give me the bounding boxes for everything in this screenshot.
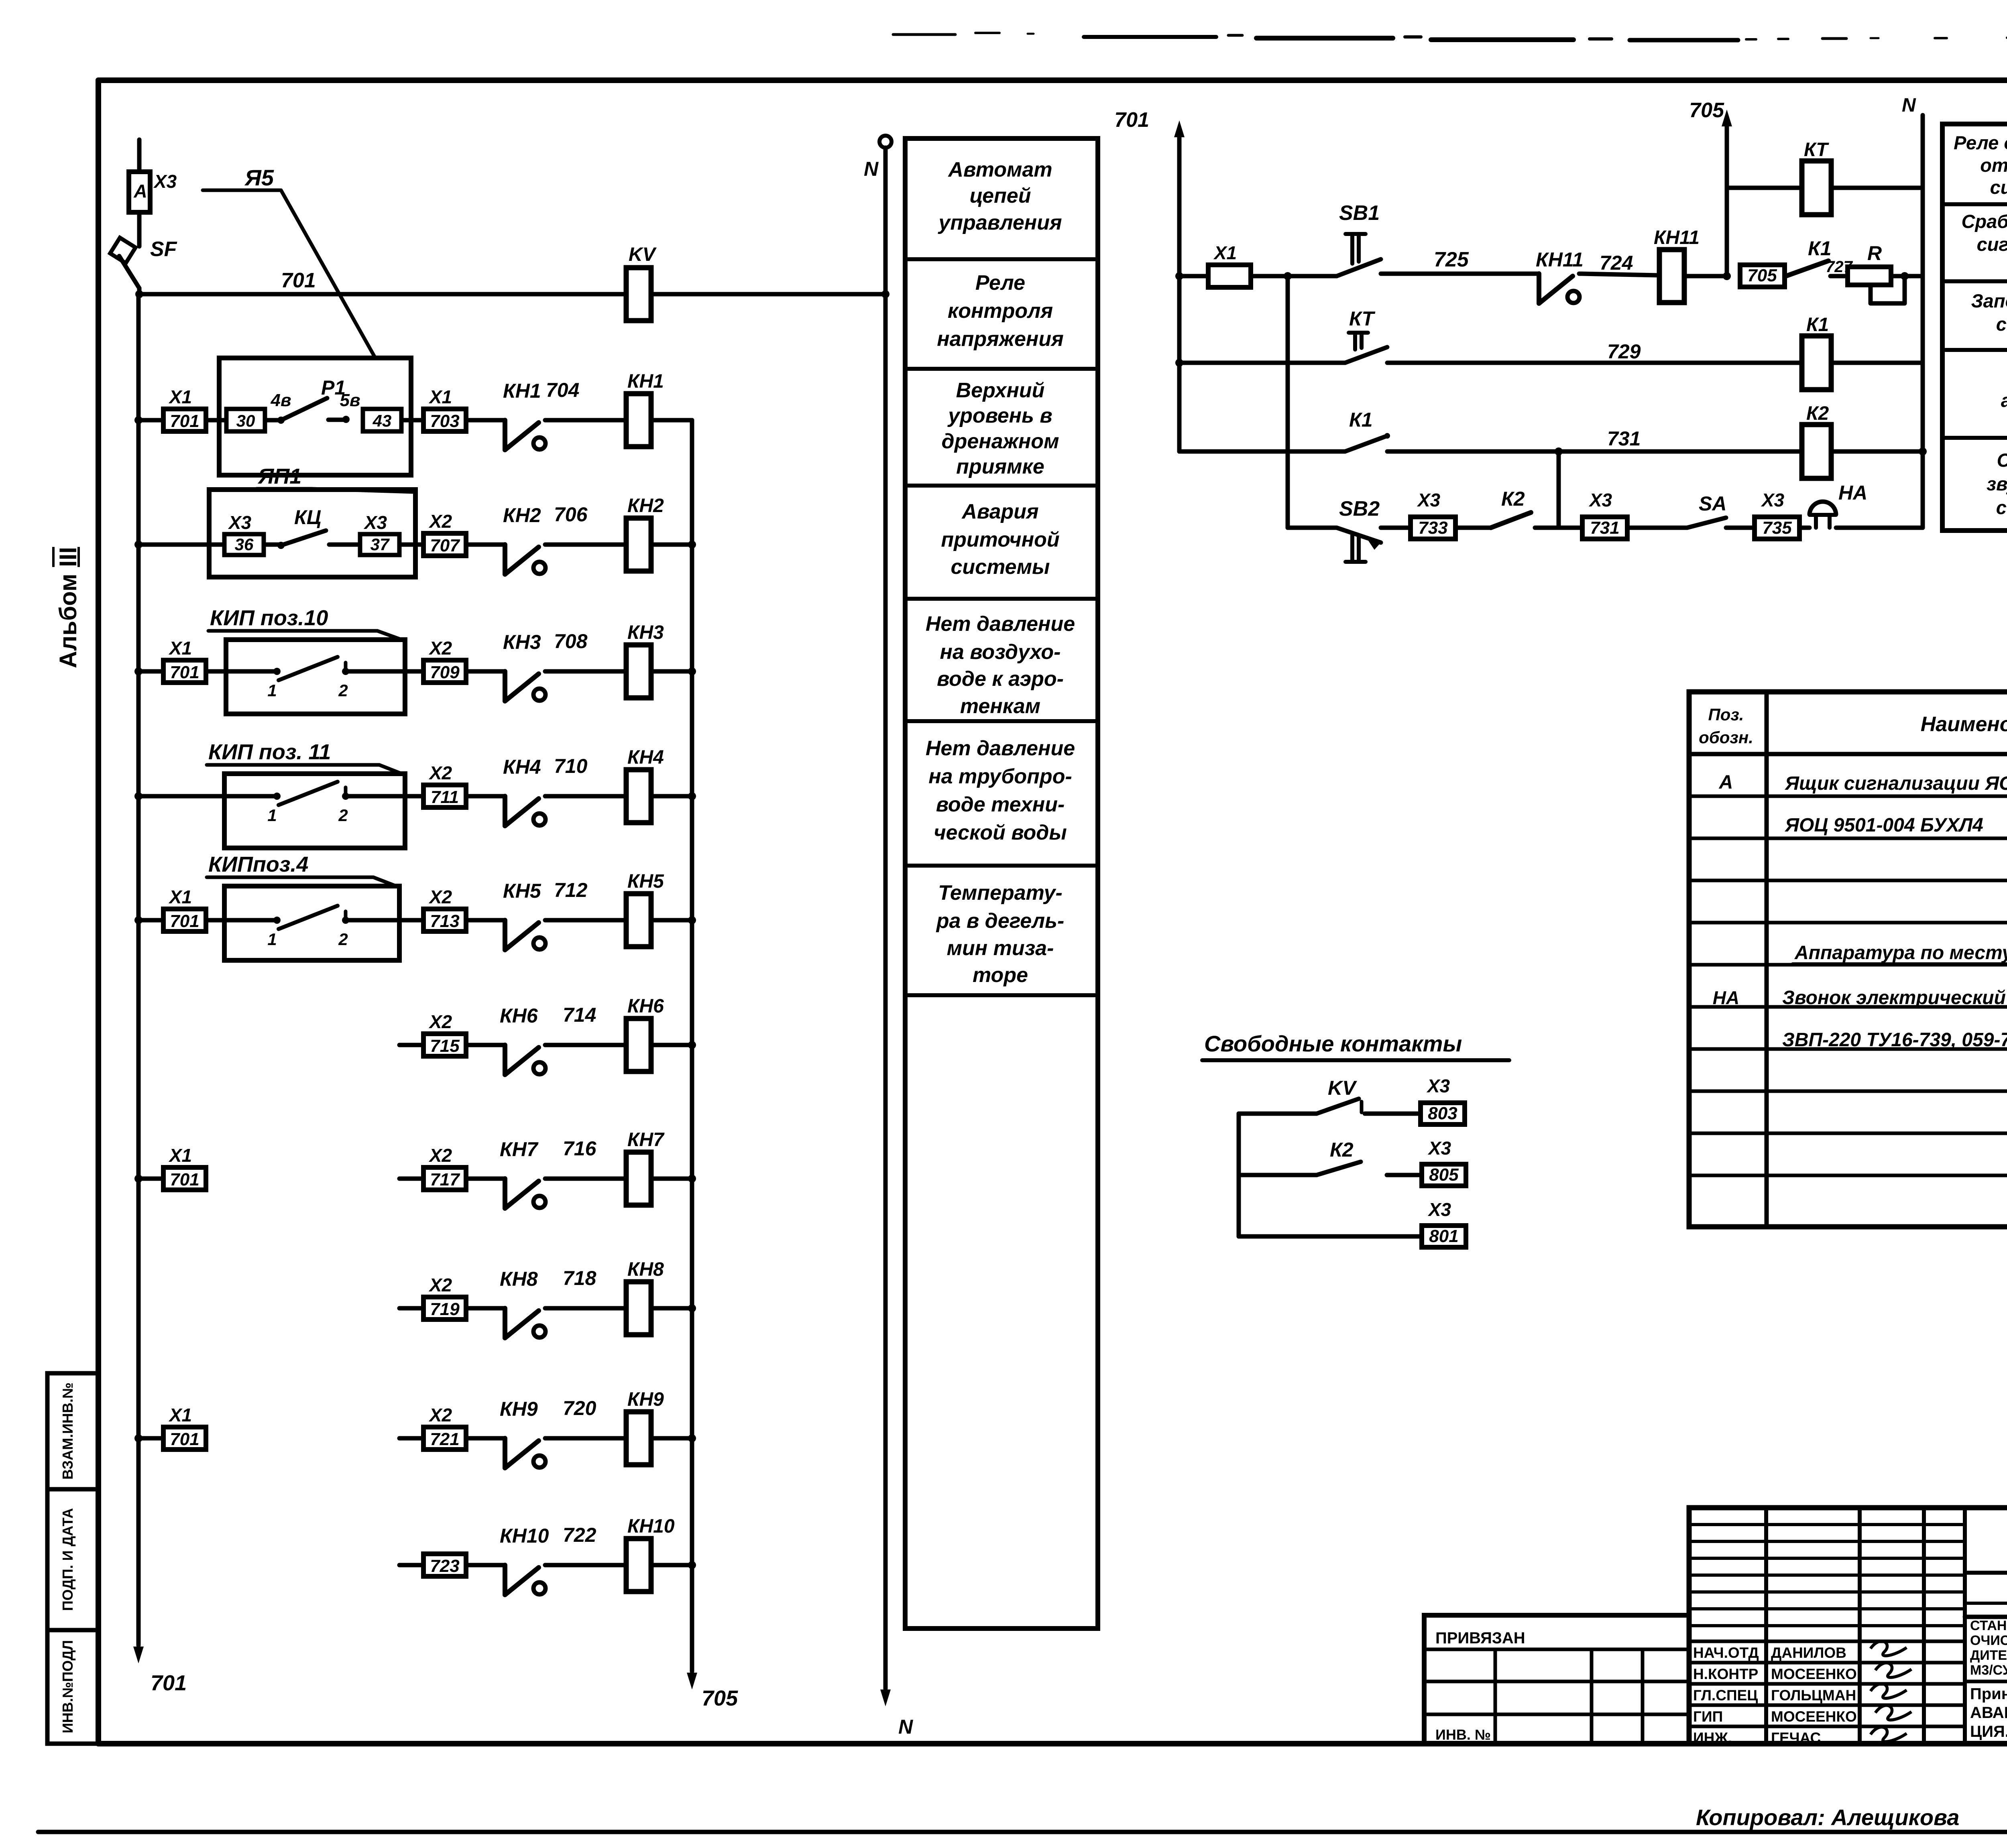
node: bus tap row KH2 [134, 541, 142, 549]
terminal X2 717 (row КН7) [399, 1177, 423, 1181]
terminal X1 (right circuit) [1208, 265, 1251, 287]
svg-text:сигналов: сигналов [1990, 177, 2007, 198]
svg-text:707: 707 [430, 536, 460, 555]
sensor contact 1-2 (КИП поз.11) [224, 794, 277, 799]
wire K1 coil to N bus [1831, 361, 1923, 365]
svg-text:Нет давление: Нет давление [926, 612, 1075, 636]
wire X2-707 to contact KH2 [466, 543, 505, 547]
svg-text:Наименование: Наименование [1921, 713, 2007, 736]
svg-text:сигнала: сигнала [1996, 497, 2007, 518]
node: bus tap row KH3 [134, 667, 142, 675]
node: tap line D [1555, 447, 1563, 455]
svg-text:KV: KV [629, 244, 657, 265]
svg-text:X1: X1 [168, 386, 192, 407]
terminal X1 701 (row KH5) [163, 909, 206, 931]
wire КИП4 to X2-713 [399, 918, 423, 923]
svg-text:718: 718 [563, 1267, 596, 1289]
svg-text:ПРИВЯЗАН: ПРИВЯЗАН [1435, 1629, 1525, 1647]
wire HA to N bus [1836, 526, 1923, 530]
svg-text:КН10: КН10 [500, 1525, 549, 1547]
svg-text:Поз.: Поз. [1708, 705, 1744, 724]
svg-text:30: 30 [236, 411, 255, 430]
stub terminal X1 701 on bus (row KH9) [134, 1434, 142, 1442]
wire 722 [545, 1563, 626, 1567]
svg-text:710: 710 [554, 755, 588, 777]
svg-text:721: 721 [430, 1429, 459, 1449]
svg-text:Аппаратура по месту: Аппаратура по месту [1794, 942, 2007, 964]
svg-text:ДАНИЛОВ: ДАНИЛОВ [1771, 1645, 1846, 1661]
contact K1 (seal-in) [1786, 261, 1828, 276]
svg-text:X1: X1 [168, 638, 192, 659]
svg-text:торе: торе [973, 964, 1028, 987]
wire to N bus (SB1 row) [1905, 274, 1923, 279]
svg-text:НА: НА [1838, 482, 1867, 504]
svg-text:X2: X2 [428, 1405, 452, 1425]
svg-text:К2: К2 [1806, 403, 1829, 424]
contact КН6 [503, 1045, 507, 1075]
svg-text:КН3: КН3 [503, 631, 541, 653]
svg-text:704: 704 [546, 379, 579, 401]
terminal X2 713 [423, 909, 466, 931]
wire to X3-731 [1535, 526, 1582, 530]
svg-text:КН7: КН7 [500, 1138, 539, 1161]
svg-text:Х3: Х3 [228, 512, 252, 533]
node: bus junction at SF [135, 290, 143, 298]
terminal X2 719 (row КН8) [399, 1306, 423, 1311]
box КИП поз.11 with callout [224, 774, 405, 848]
svg-text:X1: X1 [168, 1405, 192, 1425]
svg-text:SB2: SB2 [1339, 497, 1380, 520]
wire 729 [1387, 361, 1801, 365]
svg-text:2: 2 [338, 930, 348, 949]
svg-text:ИНВ. №: ИНВ. № [1435, 1726, 1491, 1743]
wire KV to N line [651, 292, 885, 297]
svg-text:X2: X2 [428, 886, 452, 907]
relay coil KV [626, 268, 651, 321]
svg-text:К2: К2 [1330, 1138, 1354, 1161]
svg-text:Х3: Х3 [363, 512, 387, 533]
contact KH11 (NC) [1537, 274, 1541, 303]
wire coil КН10 to bus 705 [651, 1563, 692, 1567]
relay coil K1 [1802, 336, 1831, 390]
wire KH11 coil to node C [1684, 274, 1727, 279]
relay coil KH3 [626, 645, 651, 698]
svg-text:SB1: SB1 [1339, 201, 1380, 225]
svg-text:Х3: Х3 [1427, 1138, 1451, 1159]
svg-text:701: 701 [1114, 108, 1149, 132]
wire coil KH4 to bus 705 [651, 794, 692, 799]
title block [1689, 1508, 2007, 1744]
svg-text:СТАНЦИЯ БИОЛОГИЧЕСКОЙ: СТАНЦИЯ БИОЛОГИЧЕСКОЙ [1970, 1618, 2007, 1633]
wire X2-723 to contact КН10 [466, 1563, 505, 1567]
node: bus tap row KH1 [134, 416, 142, 424]
svg-text:КН11: КН11 [1536, 248, 1584, 271]
contact P1 (in Я5) [265, 418, 281, 423]
svg-text:725: 725 [1434, 248, 1469, 271]
svg-text:X2: X2 [428, 1011, 452, 1032]
svg-text:705: 705 [1747, 266, 1777, 285]
node: line C junction [1723, 272, 1731, 280]
svg-text:701: 701 [170, 1170, 199, 1189]
component list table [1689, 692, 2007, 1227]
svg-text:1: 1 [267, 681, 277, 700]
svg-text:К1: К1 [1806, 314, 1829, 335]
svg-text:ГЕЧАС: ГЕЧАС [1771, 1730, 1821, 1746]
box КИПпоз.4 with callout [206, 918, 224, 923]
relay coil KT [1802, 161, 1831, 215]
wire coil КН9 to bus 705 [651, 1436, 692, 1441]
wire X1 to bus B [1251, 274, 1288, 279]
feed arrow 705 (line C) [1725, 126, 1729, 276]
bus 701 (left vertical) [136, 294, 141, 1645]
contact KV (free) [1239, 1112, 1317, 1116]
svg-text:701: 701 [170, 411, 199, 431]
svg-text:5в: 5в [340, 390, 360, 410]
svg-text:37: 37 [370, 535, 390, 554]
svg-text:731: 731 [1607, 427, 1641, 450]
wire coil КН6 to bus 705 [651, 1043, 692, 1047]
wire 712 [545, 918, 626, 923]
svg-text:КН5: КН5 [503, 880, 541, 902]
svg-text:803: 803 [1428, 1104, 1457, 1123]
parallel loop under R [1891, 274, 1905, 279]
terminal X2 723 (row КН10) [399, 1563, 423, 1567]
contact KH2 [503, 545, 507, 574]
svg-text:цепей: цепей [970, 184, 1031, 207]
svg-text:701: 701 [151, 1671, 187, 1695]
svg-text:735: 735 [1762, 518, 1792, 538]
function box (right) [1942, 124, 2007, 531]
terminal X3 805 [1422, 1164, 1466, 1186]
wire 727 [1830, 274, 1848, 279]
wire 716 [545, 1177, 626, 1181]
stub terminal X1 701 on bus (row KH7) [134, 1175, 142, 1183]
svg-text:706: 706 [554, 503, 588, 526]
svg-text:К2: К2 [1501, 488, 1525, 510]
svg-text:X2: X2 [428, 1145, 452, 1166]
sensor contact 1-2 (КИПпоз.4) [224, 918, 277, 923]
svg-text:Принципиальная схема: Принципиальная схема [1970, 1685, 2007, 1703]
left margin box ВЗАМ.ИНВ.№ [47, 1373, 98, 1489]
svg-text:КН3: КН3 [627, 622, 664, 643]
contact КЦ (in ЯП1) [264, 543, 281, 547]
svg-text:КН6: КН6 [627, 996, 664, 1017]
relay coil КН8 [626, 1282, 651, 1335]
wire coil КН8 to bus 705 [651, 1306, 692, 1311]
wire ЯП1 to X2-707 [399, 543, 423, 547]
svg-text:приточной: приточной [941, 528, 1059, 551]
svg-text:X1: X1 [168, 886, 192, 907]
wire coil KH3 to bus 705 [651, 669, 692, 674]
wire KT coil to N bus [1831, 186, 1923, 190]
svg-text:701: 701 [170, 1429, 199, 1449]
svg-text:КИПпоз.4: КИПпоз.4 [208, 852, 308, 876]
wire bus to X1-701 (row KH5) [138, 918, 163, 923]
contact KH3 [503, 671, 507, 701]
terminal X3 803 [1421, 1103, 1465, 1124]
svg-text:715: 715 [430, 1036, 460, 1056]
wire 708 [545, 669, 626, 674]
wire X1-703 to contact KH1 [466, 418, 505, 423]
svg-text:КН7: КН7 [627, 1129, 665, 1151]
svg-text:Ящик сигнализации ЯС: Ящик сигнализации ЯС [1784, 773, 2007, 794]
wire coil KH2 to bus 705 [651, 543, 692, 547]
contact K2 (SB2 row) [1455, 526, 1491, 530]
wire KT row tap [1727, 186, 1801, 190]
svg-text:аварии: аварии [2001, 390, 2007, 411]
svg-text:КН1: КН1 [503, 380, 541, 402]
svg-text:701: 701 [281, 269, 316, 292]
svg-text:уровень в: уровень в [947, 404, 1052, 427]
node: N bus at K2 row [1919, 447, 1927, 455]
svg-text:КН10: КН10 [627, 1516, 675, 1537]
svg-text:Реле отстройки: Реле отстройки [1954, 132, 2007, 153]
svg-text:тенкам: тенкам [960, 695, 1040, 718]
wire 706 [545, 543, 626, 547]
svg-text:Х3: Х3 [1588, 490, 1612, 510]
svg-text:Свободные контакты: Свободные контакты [1204, 1031, 1462, 1056]
svg-text:R: R [1867, 242, 1882, 264]
svg-text:2: 2 [338, 681, 348, 700]
svg-text:М3/СУТ.: М3/СУТ. [1970, 1663, 2007, 1678]
contact K2 (free) [1239, 1173, 1317, 1177]
svg-text:X2: X2 [428, 638, 452, 659]
svg-text:Н.КОНТР: Н.КОНТР [1693, 1666, 1758, 1682]
feed arrow 701 (right circuit) [1177, 137, 1182, 451]
svg-text:36: 36 [235, 535, 254, 554]
svg-text:Х3: Х3 [1761, 490, 1785, 510]
wire 710 [545, 794, 626, 799]
svg-text:ВЗАМ.ИНВ.№: ВЗАМ.ИНВ.№ [59, 1382, 76, 1480]
wire X2-721 to contact КН9 [466, 1436, 505, 1441]
wire КИП10 to X2-709 [405, 669, 423, 674]
svg-text:719: 719 [430, 1299, 460, 1319]
svg-text:ЗВП-220 ТУ16-739, 059-76: ЗВП-220 ТУ16-739, 059-76 [1782, 1029, 2007, 1051]
terminal X2 709 [423, 660, 466, 683]
svg-text:X2: X2 [428, 762, 452, 783]
svg-text:Звонок электрический: Звонок электрический [1782, 987, 2006, 1008]
svg-text:X2: X2 [428, 1275, 452, 1295]
svg-text:КН9: КН9 [627, 1389, 664, 1410]
bus (free contacts) [1237, 1114, 1241, 1236]
svg-text:ГИП: ГИП [1693, 1708, 1723, 1725]
terminal box 705 [1740, 265, 1785, 287]
svg-text:НАЧ.ОТД: НАЧ.ОТД [1693, 1645, 1759, 1661]
svg-text:дренажном: дренажном [941, 430, 1059, 453]
svg-text:Температу-: Температу- [938, 881, 1063, 905]
svg-text:Авария: Авария [961, 500, 1038, 523]
wire X2-717 to contact КН7 [466, 1177, 505, 1181]
wire 731 [1387, 449, 1801, 454]
svg-text:КН4: КН4 [503, 756, 541, 778]
svg-text:Автомат: Автомат [947, 158, 1052, 181]
svg-text:воде к аэро-: воде к аэро- [937, 667, 1064, 691]
svg-text:Верхний: Верхний [956, 379, 1045, 402]
wire to X3 801 [1239, 1234, 1422, 1239]
wire X2-711 to contact KH4 [466, 794, 505, 799]
svg-text:НА: НА [1713, 987, 1739, 1008]
sensor contact 1-2 (КИП поз.10) [226, 669, 277, 674]
svg-text:722: 722 [563, 1524, 596, 1546]
wire bus to box ЯП1 [138, 543, 224, 547]
wire bus to X1-701 (row KH3) [138, 669, 163, 674]
svg-text:711: 711 [431, 787, 459, 807]
svg-text:звукового: звукового [1987, 473, 2007, 494]
svg-text:Реле: Реле [975, 271, 1025, 295]
terminal X3 731 [1582, 517, 1627, 539]
svg-text:805: 805 [1429, 1165, 1459, 1185]
terminal X3 37 (in ЯП1) [329, 543, 360, 547]
svg-text:724: 724 [1600, 252, 1633, 274]
svg-text:4в: 4в [270, 390, 291, 410]
svg-text:717: 717 [430, 1170, 460, 1189]
svg-text:708: 708 [554, 630, 588, 653]
svg-text:ИНВ.№ПОДЛ: ИНВ.№ПОДЛ [59, 1640, 76, 1733]
terminal X3 801 [1422, 1226, 1466, 1247]
box Я5 with callout [219, 358, 411, 475]
svg-text:2: 2 [338, 806, 348, 825]
contact КН7 [503, 1179, 507, 1208]
contact КН9 [503, 1438, 507, 1468]
svg-text:713: 713 [430, 911, 459, 931]
svg-text:сигнальных: сигнальных [1977, 234, 2007, 255]
binding block ПРИВЯЗАН [1424, 1615, 1689, 1744]
svg-text:729: 729 [1607, 340, 1641, 363]
svg-text:712: 712 [554, 879, 588, 901]
svg-text:МОСЕЕНКО: МОСЕЕНКО [1771, 1666, 1857, 1682]
wire coil КН7 to bus 705 [651, 1177, 692, 1181]
neutral line N (left) [879, 136, 892, 148]
svg-text:Х3: Х3 [1427, 1199, 1451, 1220]
fuse A (X3) [137, 140, 142, 172]
svg-text:X1: X1 [428, 386, 452, 407]
wire bus to X1-701 (row KH1) [138, 418, 163, 423]
relay coil KH5 [626, 894, 651, 947]
contact KH4 [503, 796, 507, 826]
resistor R [1848, 267, 1891, 285]
svg-text:X1: X1 [1213, 242, 1237, 263]
svg-text:КН8: КН8 [627, 1259, 664, 1280]
svg-text:КН2: КН2 [503, 504, 541, 527]
svg-text:управления: управления [937, 211, 1062, 234]
terminal X1 703 [423, 409, 466, 431]
contact KH1 [503, 420, 507, 450]
wire 714 [545, 1043, 626, 1047]
node: bus tap row KH4 [134, 792, 142, 800]
svg-text:МОСЕЕНКО: МОСЕЕНКО [1771, 1708, 1857, 1725]
svg-text:ЦИЯ.: ЦИЯ. [1970, 1723, 2007, 1740]
svg-text:ра в дегель-: ра в дегель- [936, 909, 1065, 933]
relay coil KH4 [626, 770, 651, 823]
terminal X2 715 (row КН6) [399, 1043, 423, 1047]
svg-text:АВАРИЙНОЙ СИГНАЛИЗА-: АВАРИЙНОЙ СИГНАЛИЗА- [1970, 1703, 2007, 1722]
svg-text:А: А [133, 181, 147, 201]
svg-text:N: N [1902, 95, 1916, 116]
bus 705 (coil return, vertical) [690, 420, 694, 1671]
wire feed to X1 [1179, 274, 1208, 279]
contact КН8 [503, 1308, 507, 1338]
svg-text:43: 43 [372, 411, 392, 430]
svg-text:701: 701 [170, 663, 199, 682]
svg-text:733: 733 [1418, 518, 1447, 538]
terminal X1 701 (row KH3) [163, 660, 206, 683]
svg-text:Альбом III: Альбом III [55, 547, 81, 668]
node: feed at SB1 row [1175, 272, 1183, 280]
svg-text:обозн.: обозн. [1699, 728, 1753, 747]
wire X1-701 to box Я5 [206, 418, 226, 423]
function table (middle) [905, 138, 1098, 1628]
terminal X3 36 (in ЯП1) [224, 534, 264, 555]
svg-text:КН2: КН2 [627, 495, 664, 516]
svg-text:ЯОЦ 9501-004 БУХЛ4: ЯОЦ 9501-004 БУХЛ4 [1784, 815, 1983, 836]
svg-text:731: 731 [1590, 518, 1619, 538]
svg-text:КН6: КН6 [500, 1004, 538, 1027]
terminal X2 707 [423, 533, 466, 556]
terminal X2 721 (row КН9) [399, 1436, 423, 1441]
svg-text:напряжения: напряжения [937, 327, 1063, 351]
svg-text:ГЛ.СПЕЦ: ГЛ.СПЕЦ [1693, 1687, 1758, 1704]
svg-text:КН8: КН8 [500, 1268, 538, 1290]
node: bus tap row KH5 [134, 916, 142, 924]
svg-text:системы: системы [951, 555, 1050, 579]
svg-text:на воздухо-: на воздухо- [940, 640, 1061, 664]
bus B (right circuit vertical) [1286, 276, 1290, 528]
svg-text:705: 705 [1689, 99, 1724, 122]
switch SA [1627, 526, 1687, 530]
svg-text:705: 705 [702, 1686, 738, 1710]
svg-text:X1: X1 [168, 1145, 192, 1166]
switch SF [137, 212, 142, 246]
svg-text:ИНЖ.: ИНЖ. [1693, 1730, 1732, 1746]
svg-text:К1: К1 [1349, 409, 1373, 431]
svg-text:К1: К1 [1808, 237, 1832, 260]
svg-text:КИП поз. 11: КИП поз. 11 [208, 740, 331, 764]
relay coil KH1 [626, 394, 651, 447]
svg-text:приямке: приямке [956, 455, 1044, 478]
wire bus to box КИП поз.11 [138, 794, 224, 799]
svg-text:1: 1 [267, 806, 277, 825]
svg-text:Срабатывание: Срабатывание [1961, 211, 2007, 232]
svg-text:720: 720 [563, 1397, 596, 1419]
relay coil КН9 [626, 1412, 651, 1465]
terminal X3 733 [1381, 526, 1411, 530]
contact КН10 [503, 1565, 507, 1595]
svg-text:КН11: КН11 [1654, 227, 1700, 248]
svg-text:716: 716 [563, 1137, 597, 1160]
wire coil KH1 to bus 705 [651, 418, 692, 423]
svg-text:сигнала: сигнала [1996, 313, 2007, 335]
wire 725 [1381, 272, 1539, 276]
box ЯП1 with callout [209, 490, 415, 577]
svg-text:Снятие: Снятие [1997, 449, 2007, 471]
svg-text:X2: X2 [428, 511, 452, 532]
svg-text:ГОЛЬЦМАН: ГОЛЬЦМАН [1771, 1687, 1856, 1704]
svg-text:КН1: КН1 [627, 371, 664, 392]
svg-text:Запоминание: Запоминание [1971, 290, 2007, 311]
wire K2 coil to N bus [1831, 449, 1923, 454]
svg-text:Х3: Х3 [153, 171, 177, 192]
wire 43 to X1-703 [401, 418, 423, 423]
relay coil КН6 [626, 1019, 651, 1071]
wire 704 [545, 418, 626, 423]
node: after R [1901, 272, 1909, 280]
terminal 43 (in Я5) [363, 409, 401, 431]
svg-text:КТ: КТ [1804, 139, 1829, 161]
neutral bus N (right) [1921, 115, 1925, 528]
relay coil КН10 [626, 1539, 651, 1592]
svg-text:801: 801 [1429, 1226, 1458, 1246]
svg-text:КТ: КТ [1349, 307, 1376, 330]
